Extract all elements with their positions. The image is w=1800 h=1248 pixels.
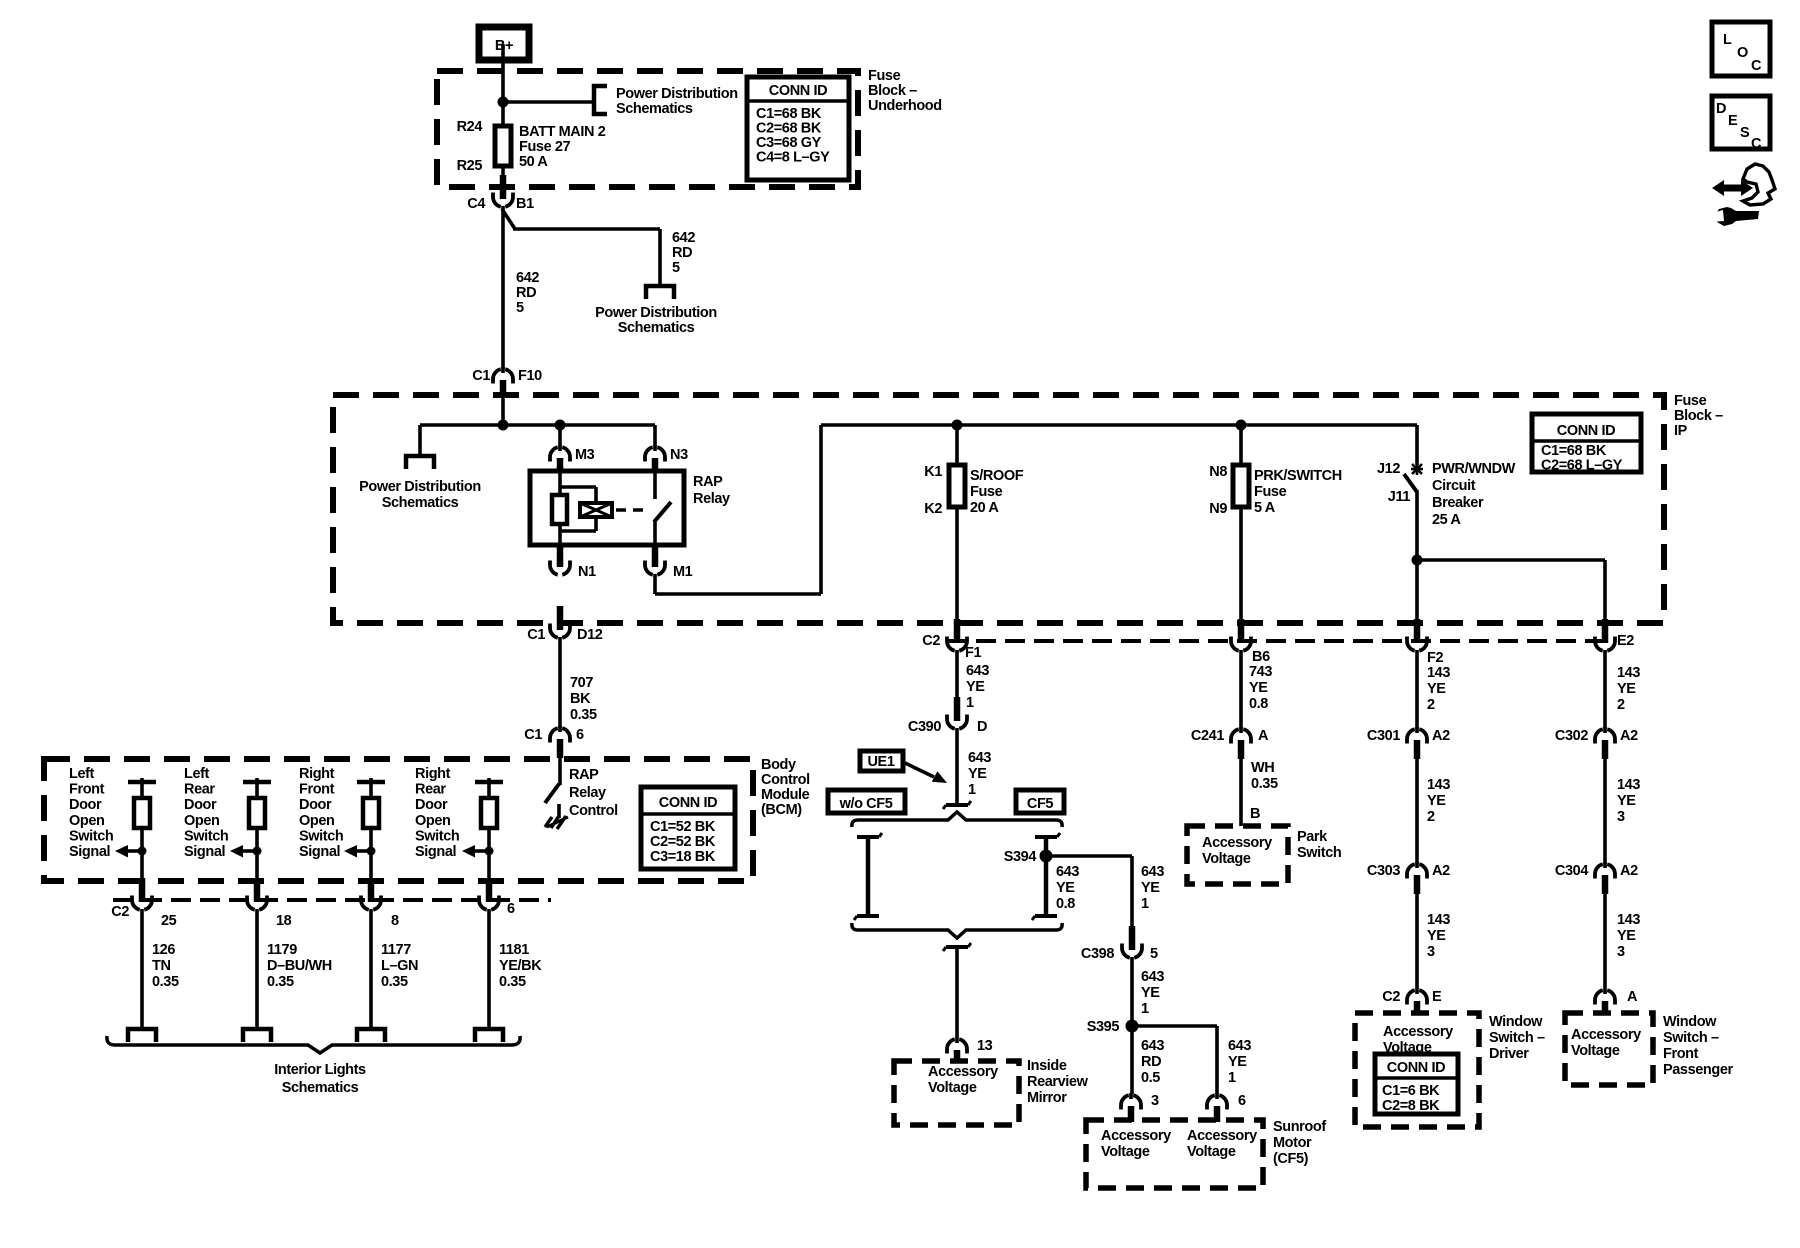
svg-text:Voltage: Voltage [928,1080,977,1096]
wire resistor to signal node (Right front) [369,828,373,880]
label 643 YE 1 (S394 right) [1141,864,1164,912]
wire C302 to C304 (143 YE) [1603,758,1607,864]
left bus wire [420,423,655,427]
svg-text:CONN ID: CONN ID [659,795,717,811]
label Interior Lights Schematics [274,1062,366,1096]
connector N1 [550,543,596,580]
svg-text:Switch: Switch [1297,845,1341,861]
connector C241/A [1191,727,1269,759]
svg-text:TN: TN [152,958,171,974]
svg-text:25 A: 25 A [1432,512,1461,528]
svg-text:A2: A2 [1620,863,1638,879]
svg-text:143: 143 [1427,777,1450,793]
svg-text:Passenger: Passenger [1663,1062,1734,1078]
CONN ID table (IP) [1532,414,1641,474]
wire PRK/SWITCH fuse to B6 [1239,507,1243,619]
label Park Switch [1297,829,1341,861]
svg-text:Door: Door [184,797,217,813]
svg-text:CF5: CF5 [1027,796,1054,812]
svg-text:Voltage: Voltage [1101,1144,1150,1160]
svg-text:Signal: Signal [415,844,456,860]
label Sunroof Motor (CF5) [1273,1119,1326,1167]
connector C2/F1 [922,619,981,661]
svg-text:C1: C1 [472,368,490,384]
connector C2 pin 8 [361,878,381,910]
label 126 TN 0.35 [152,942,179,990]
svg-text:Signal: Signal [69,844,110,860]
wire to interior lights (126 TN) [140,909,144,1029]
svg-text:0.5: 0.5 [1141,1070,1160,1086]
svg-text:WH: WH [1251,760,1274,776]
svg-text:25: 25 [161,913,177,929]
wire fuse 27 to connector C4 [501,166,505,184]
resistor (Right front door input) [363,798,379,828]
svg-text:A2: A2 [1432,728,1450,744]
CONN ID table (BCM) [641,787,735,869]
option label box w/o CF5 [828,790,905,813]
svg-text:C241: C241 [1191,728,1224,744]
svg-text:6: 6 [507,901,515,917]
node junction (Right front signal) [367,847,376,856]
window switch driver dashed box [1355,1013,1479,1127]
circuit breaker thermal element mark [1411,463,1423,475]
sunroof motor dashed box [1086,1120,1263,1188]
svg-text:YE: YE [1617,681,1636,697]
svg-text:F1: F1 [965,645,981,661]
label 643 RD 0.5 [1141,1038,1164,1086]
wire resistor to signal node (Left rear) [255,828,259,880]
svg-text:C4=8 L–GY: C4=8 L–GY [756,150,830,166]
svg-text:0.8: 0.8 [1056,896,1075,912]
svg-text:Rear: Rear [184,782,215,798]
svg-text:S394: S394 [1004,849,1037,865]
relay blade wire to M1 [653,520,657,548]
label RAP Relay Control [569,767,618,819]
svg-text:S: S [1740,125,1750,141]
svg-text:Door: Door [69,797,102,813]
wire C390 to option split (643 YE) [955,728,959,805]
svg-text:Rear: Rear [415,782,446,798]
svg-text:0.35: 0.35 [152,974,179,990]
svg-text:0.35: 0.35 [381,974,408,990]
pin N9 label [1209,501,1227,517]
svg-text:Switch: Switch [299,828,343,844]
svg-text:5: 5 [1150,946,1158,962]
svg-text:E: E [1432,989,1442,1005]
svg-text:E2: E2 [1617,633,1634,649]
svg-text:143: 143 [1617,912,1640,928]
svg-text:Fuse: Fuse [1674,393,1707,409]
connector C302/A2 [1555,727,1638,759]
window switch passenger dashed box [1565,1013,1653,1085]
label PWR/WNDW Circuit Breaker 25 A [1432,461,1516,528]
svg-text:2: 2 [1427,697,1435,713]
pin K1 label [924,464,942,480]
label 643 YE 1 (S395 right) [1228,1038,1251,1086]
relay coil wire to N1 [558,523,562,548]
svg-text:Open: Open [299,813,334,829]
svg-text:Right: Right [299,766,335,782]
wire to power distribution reference [503,100,594,104]
svg-text:IP: IP [1674,423,1688,439]
off-page reference bracket (power distribution) [594,86,607,114]
svg-text:CONN ID: CONN ID [769,83,827,99]
connector 13 [947,1037,993,1063]
pin R25 label [457,158,483,174]
Right rear door switch signal source bar [475,778,503,798]
circuit breaker blade [1404,474,1417,492]
pin B label (park switch) [1250,806,1260,822]
connector C301/A2 [1367,727,1450,759]
svg-text:YE: YE [1617,928,1636,944]
pin 6 label [507,901,515,917]
svg-text:Switch –: Switch – [1663,1030,1719,1046]
svg-text:Voltage: Voltage [1202,851,1251,867]
splice S394 [1004,849,1053,865]
wire bus to PRK/SWITCH fuse [1239,425,1243,467]
svg-text:Schematics: Schematics [282,1080,359,1096]
wire option merge to mirror connector [955,947,959,1038]
resistor (Left rear door input) [249,798,265,828]
off-page bracket (interior lights 1181) [475,1029,503,1042]
pin N8 label [1209,464,1227,480]
label 143 YE 3 (C303-E) [1427,912,1450,960]
LOC reference icon [1712,22,1770,76]
svg-text:Block –: Block – [868,83,917,99]
relay switch blade [654,502,671,522]
label power distribution schematics (B1 branch) [595,305,717,336]
svg-text:O: O [1737,45,1748,61]
CONN ID table (driver window switch) [1375,1054,1458,1114]
svg-text:K1: K1 [924,464,942,480]
svg-text:YE: YE [1427,681,1446,697]
svg-text:0.35: 0.35 [1251,776,1278,792]
wire resistor to signal node (Right rear) [487,828,491,880]
svg-text:2: 2 [1427,809,1435,825]
svg-text:643: 643 [1141,864,1164,880]
connector C303/A2 [1367,862,1450,894]
svg-text:Accessory: Accessory [1571,1027,1641,1043]
svg-text:642: 642 [672,230,695,246]
callout arrow UE1 [903,762,947,783]
wire D12 to C1/6 (707 BK) [558,637,562,728]
svg-text:YE: YE [1141,880,1160,896]
label 643 YE 1 (C390-split) [968,750,991,798]
svg-text:643: 643 [1141,969,1164,985]
label S/ROOF Fuse 20 A [970,468,1024,516]
node junction at S/ROOF fuse [952,420,963,431]
wire breaker to F2 [1415,490,1419,619]
svg-text:Fuse: Fuse [868,68,901,84]
wire C398 to S395 (643 YE) [1130,957,1134,1026]
svg-text:C1=6 BK: C1=6 BK [1382,1083,1440,1099]
svg-text:Fuse: Fuse [1254,484,1287,500]
svg-text:643: 643 [1056,864,1079,880]
label 643 YE 1 (F1-C390) [966,663,989,711]
svg-text:Switch: Switch [69,828,113,844]
svg-text:D–BU/WH: D–BU/WH [267,958,332,974]
label 143 YE 2 (C301-C303) [1427,777,1450,825]
connector 6 [1207,1093,1246,1122]
svg-text:143: 143 [1617,665,1640,681]
label PRK/SWITCH Fuse 5 A [1254,468,1342,516]
svg-text:C: C [1751,58,1762,74]
svg-text:Relay: Relay [693,491,730,507]
wire S/ROOF fuse to C2/F1 [955,507,959,619]
label Fuse Block - IP [1674,393,1723,439]
svg-text:CONN ID: CONN ID [1387,1060,1445,1076]
svg-text:3: 3 [1617,944,1625,960]
svg-text:Motor: Motor [1273,1135,1312,1151]
svg-text:(CF5): (CF5) [1273,1151,1309,1167]
label 143 YE 2 (F2-C301) [1427,665,1450,713]
svg-text:643: 643 [966,663,989,679]
svg-text:Accessory: Accessory [1187,1128,1257,1144]
pin R24 label [457,119,483,135]
svg-text:C2=8 BK: C2=8 BK [1382,1098,1440,1114]
node junction on B+ feed [498,97,509,108]
wire break below option merge [943,943,971,951]
relay solenoid element [580,503,612,517]
svg-text:C1: C1 [524,727,542,743]
svg-text:J11: J11 [1388,489,1411,505]
RAP relay control ground stub [557,804,561,818]
relay fixed contact wire N3 side [653,471,657,499]
svg-text:Breaker: Breaker [1432,495,1484,511]
svg-text:L–GN: L–GN [381,958,418,974]
svg-text:N3: N3 [670,447,688,463]
svg-text:A: A [1627,989,1638,1005]
node junction (Right rear signal) [485,847,494,856]
svg-text:Park: Park [1297,829,1328,845]
label 743 YE 0.8 [1249,664,1272,712]
wire B1 down to C1/F10 [501,206,505,369]
label Inside Rearview Mirror [1027,1058,1089,1106]
label 643 YE 1 (C398-S395) [1141,969,1164,1017]
label 143 YE 3 (C304-A) [1617,912,1640,960]
svg-text:Signal: Signal [299,844,340,860]
label Left front door open switch signal [69,766,113,860]
wire bus to N3 [653,425,657,447]
Left rear door switch signal source bar [243,778,271,798]
connector F2 [1407,619,1443,666]
svg-text:Open: Open [415,813,450,829]
svg-text:C4: C4 [467,196,485,212]
svg-text:643: 643 [968,750,991,766]
label 1177 L–GN 0.35 [381,942,418,990]
svg-text:S395: S395 [1087,1019,1120,1035]
svg-text:BATT MAIN 2: BATT MAIN 2 [519,124,606,140]
svg-text:C301: C301 [1367,728,1400,744]
svg-text:Interior Lights: Interior Lights [274,1062,366,1078]
node junction at M3 branch [555,420,566,431]
connector row dashed line (BCM) [113,898,551,902]
svg-text:Schematics: Schematics [618,320,695,336]
wire resistor to signal node (Left front) [140,828,144,880]
svg-text:1177: 1177 [381,942,411,958]
off-page bracket (power distribution feed) [646,286,674,299]
connector C1/6 [524,726,584,758]
wire branch to power distribution (642 RD 5) [502,209,660,286]
svg-text:Power Distribution: Power Distribution [595,305,717,321]
connector row dashed line (IP bottom) [947,639,1610,643]
svg-text:C2: C2 [922,633,940,649]
svg-text:1: 1 [1228,1070,1236,1086]
option branch w/o CF5 (direct wire) [854,833,882,920]
svg-text:C302: C302 [1555,728,1588,744]
wire B+ to fuse 27 [501,44,505,126]
pin J11 label [1388,489,1411,505]
svg-text:C2=68 L–GY: C2=68 L–GY [1541,458,1623,474]
svg-text:YE: YE [1427,793,1446,809]
svg-text:B1: B1 [516,196,534,212]
label 143 YE 3 (C302-C304) [1617,777,1640,825]
svg-text:0.35: 0.35 [570,707,597,723]
svg-text:6: 6 [1238,1093,1246,1109]
svg-text:B6: B6 [1252,649,1270,665]
pin 18 label [276,913,292,929]
svg-text:N1: N1 [578,564,596,580]
label accessory voltage (park switch) [1202,835,1272,867]
connector M1 [645,543,693,580]
node junction at F10 feed [498,420,509,431]
svg-text:5 A: 5 A [1254,500,1276,516]
svg-text:A2: A2 [1432,863,1450,879]
svg-text:N8: N8 [1209,464,1227,480]
svg-text:6: 6 [576,727,584,743]
label Left rear door open switch signal [184,766,228,860]
svg-text:Front: Front [299,782,335,798]
label accessory voltage (sunroof pin 3) [1101,1128,1171,1160]
connector C1/D12 [527,606,602,643]
interior lights brace [107,1036,520,1053]
label Window Switch - Front Passenger [1663,1014,1734,1078]
off-page bracket (IP power distribution) [406,456,434,469]
Right front door switch signal source bar [357,778,385,798]
svg-text:Signal: Signal [184,844,225,860]
svg-text:N9: N9 [1209,501,1227,517]
pin 25 label [161,913,177,929]
svg-text:5: 5 [672,260,680,276]
label 1181 YE/BK 0.35 [499,942,542,990]
svg-text:8: 8 [391,913,399,929]
svg-text:YE: YE [1617,793,1636,809]
svg-text:A2: A2 [1620,728,1638,744]
svg-text:K2: K2 [924,501,942,517]
label 143 YE 2 (E2-C302) [1617,665,1640,713]
connector C2 pin 25 [132,878,152,910]
svg-text:(BCM): (BCM) [761,802,802,818]
svg-text:Power Distribution: Power Distribution [359,479,481,495]
wire break at option split [943,801,971,809]
DESC reference icon [1712,96,1770,152]
svg-text:1: 1 [966,695,974,711]
svg-text:Accessory: Accessory [1202,835,1272,851]
ground (RAP relay control) [545,816,568,829]
svg-text:R24: R24 [457,119,483,135]
svg-text:D12: D12 [577,627,603,643]
svg-text:YE: YE [966,679,985,695]
svg-text:F2: F2 [1427,650,1443,666]
right bus wire [821,423,1417,427]
svg-text:L: L [1723,32,1732,48]
relay solenoid branch wires [560,487,596,531]
svg-text:C2=52 BK: C2=52 BK [650,834,716,850]
label 642 RD 5 (left) [516,270,539,316]
RAP relay control switch blade [545,784,559,803]
signal arrow (Right front) [344,845,371,858]
body control module dashed box [44,759,753,881]
connector M3 [550,445,595,473]
svg-text:PRK/SWITCH: PRK/SWITCH [1254,468,1342,484]
svg-text:YE: YE [1228,1054,1247,1070]
svg-text:Sunroof: Sunroof [1273,1119,1326,1135]
node junction at window switch branch [1412,555,1423,566]
svg-text:18: 18 [276,913,292,929]
svg-text:A: A [1258,728,1269,744]
svg-text:Switch –: Switch – [1489,1030,1545,1046]
wire C241 to park switch (WH) [1239,758,1243,826]
signal arrow (Left front) [115,845,142,858]
svg-text:Window: Window [1489,1014,1543,1030]
wire S394 to C398 [1046,856,1132,926]
svg-text:F10: F10 [518,368,542,384]
svg-text:143: 143 [1427,912,1450,928]
svg-text:D: D [977,719,987,735]
svg-text:Fuse: Fuse [970,484,1003,500]
wire bus corner to circuit breaker [1415,425,1419,465]
label BATT MAIN 2 Fuse 27 50 A [519,124,606,170]
Fuse Block - IP dashed box [333,395,1664,623]
wire F1 to C390 (643 YE) [955,650,959,701]
svg-text:20 A: 20 A [970,500,999,516]
callout box UE1 [860,751,903,771]
label accessory voltage (passenger) [1571,1027,1641,1059]
svg-text:0.8: 0.8 [1249,696,1268,712]
svg-text:Power Distribution: Power Distribution [616,86,738,102]
svg-text:Switch: Switch [184,828,228,844]
connector E2 [1595,619,1634,651]
svg-text:0.35: 0.35 [499,974,526,990]
connector N3 [645,445,688,473]
svg-text:w/o CF5: w/o CF5 [839,796,893,812]
svg-text:C304: C304 [1555,863,1588,879]
svg-text:C398: C398 [1081,946,1114,962]
svg-text:Open: Open [69,813,104,829]
label power distribution schematics (IP) [359,479,481,511]
svg-text:Underhood: Underhood [868,98,942,114]
svg-text:2: 2 [1617,697,1625,713]
off-page bracket (interior lights 1179) [243,1029,271,1042]
off-page bracket (interior lights 126) [128,1029,156,1042]
off-page bracket (interior lights 1177) [357,1029,385,1042]
fuse S/ROOF 20A [949,465,965,507]
svg-text:126: 126 [152,942,175,958]
svg-text:E: E [1728,113,1738,129]
resistor (Left front door input) [134,798,150,828]
wire M1 to right bus [655,425,821,594]
label Body Control Module (BCM) [761,757,810,818]
svg-text:D: D [1716,101,1726,117]
label 643 YE 0.8 (S394 left) [1056,864,1079,912]
svg-text:CONN ID: CONN ID [1557,423,1615,439]
svg-text:3: 3 [1427,944,1435,960]
svg-text:Right: Right [415,766,451,782]
svg-text:Body: Body [761,757,796,773]
svg-text:Left: Left [69,766,95,782]
svg-text:C1: C1 [527,627,545,643]
svg-text:YE: YE [1056,880,1075,896]
